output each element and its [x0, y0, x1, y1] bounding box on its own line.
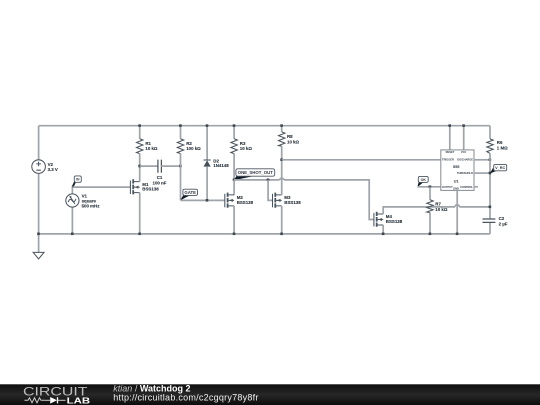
- svg-text:OUTPUT: OUTPUT: [442, 185, 453, 189]
- svg-text:10 kΩ: 10 kΩ: [240, 146, 253, 151]
- node threshold junction: [489, 172, 492, 175]
- wire hop over trigger branch: [280, 178, 284, 180]
- capacitor C2: [483, 216, 508, 226]
- resistor R6: [487, 139, 508, 219]
- wire R2 bottom to gate row: [180, 166, 182, 200]
- transistor M2 BSS138: [225, 193, 254, 208]
- wire M4 source: [382, 225, 384, 234]
- transistor M3 BSS138: [273, 193, 302, 208]
- flag IN: [72, 176, 81, 188]
- wire trigger row: [282, 159, 441, 161]
- wire M1 drain: [139, 166, 141, 182]
- svg-text:GATE: GATE: [184, 190, 196, 195]
- svg-text:10 kΩ: 10 kΩ: [435, 207, 448, 212]
- voltage source V1: [66, 187, 100, 234]
- svg-text:CONTROL: CONTROL: [460, 185, 473, 189]
- node R8 top: [280, 124, 283, 127]
- resistor R3: [231, 126, 252, 180]
- node gnd rail: [456, 233, 459, 236]
- node one-shot: [233, 179, 236, 182]
- svg-text:DISCHARGE: DISCHARGE: [457, 158, 473, 162]
- wire C2 bottom lead: [489, 222, 491, 234]
- svg-text:TRIGGER: TRIGGER: [442, 158, 454, 162]
- transistor M4 BSS138: [374, 212, 403, 227]
- wire V2 bottom lead: [38, 173, 40, 234]
- node one-shot to M3 gate: [267, 179, 270, 182]
- svg-text:RESET: RESET: [446, 150, 455, 154]
- flag OK: [417, 176, 428, 187]
- ground: [33, 234, 44, 259]
- capacitor C1: [140, 160, 181, 186]
- wire M1 source: [139, 193, 141, 234]
- node V1 bottom: [71, 233, 74, 236]
- node discharge: [489, 158, 492, 161]
- IC U1 555 timer: [441, 126, 474, 191]
- svg-text:100 kΩ: 100 kΩ: [186, 146, 201, 151]
- wire bottom rail: [39, 233, 490, 235]
- node C1 left: [138, 165, 141, 168]
- wire gnd pin: [456, 190, 458, 234]
- svg-text:GND: GND: [453, 187, 459, 191]
- svg-text:IN: IN: [76, 178, 80, 182]
- resistor R8: [279, 126, 300, 160]
- wire M4 drain to V_RC node: [459, 206, 490, 208]
- node vcc top: [462, 124, 465, 127]
- wire M3 drain: [281, 160, 283, 195]
- wire control stub: [474, 186, 478, 188]
- wire one-shot row: [234, 179, 280, 181]
- svg-text:1 MΩ: 1 MΩ: [497, 145, 508, 150]
- svg-text:R3: R3: [240, 141, 246, 146]
- node trigger: [280, 158, 283, 161]
- node M1 source rail: [138, 233, 141, 236]
- svg-text:10 kΩ: 10 kΩ: [287, 139, 300, 144]
- wire gate row M2: [181, 199, 225, 201]
- svg-text:10 kΩ: 10 kΩ: [145, 146, 158, 151]
- wire discharge: [474, 159, 490, 161]
- footer bar: [0, 383, 540, 405]
- node D2 gate row: [206, 199, 209, 202]
- svg-text:VCC: VCC: [461, 150, 467, 154]
- wire threshold: [474, 172, 490, 174]
- resistor R7: [427, 187, 448, 234]
- svg-text:BSS138: BSS138: [142, 187, 159, 192]
- svg-text:R7: R7: [435, 202, 441, 207]
- svg-text:V_RC: V_RC: [495, 166, 505, 170]
- node D2 top: [206, 124, 209, 127]
- transistor M1 BSS138: [130, 179, 159, 194]
- wire M3 gate drop: [268, 180, 272, 201]
- svg-text:THRESHOLD: THRESHOLD: [457, 171, 473, 175]
- flag GATE: [180, 189, 197, 200]
- node C1 right: [179, 165, 182, 168]
- node M3 source rail: [280, 233, 283, 236]
- node bottom-left junction: [37, 233, 40, 236]
- resistor R1: [137, 126, 158, 166]
- svg-text:2 µF: 2 µF: [499, 221, 508, 226]
- svg-text:3.3 V: 3.3 V: [48, 167, 58, 172]
- node M4 source rail: [382, 233, 385, 236]
- node R2 top: [179, 124, 182, 127]
- svg-text:ONE_SHOT_OUT: ONE_SHOT_OUT: [238, 170, 273, 175]
- wire IN row: [72, 186, 130, 188]
- svg-text:R6: R6: [497, 140, 503, 145]
- wire R6 top lead: [489, 126, 491, 139]
- diode D2 1N4148: [204, 126, 230, 201]
- node reset top: [448, 124, 451, 127]
- node output R7: [429, 185, 432, 188]
- wire M3 source: [281, 206, 283, 234]
- svg-text:BSS138: BSS138: [386, 219, 403, 224]
- svg-text:R1: R1: [145, 141, 151, 146]
- wire hop over gnd: [455, 205, 459, 207]
- svg-text:R2: R2: [186, 141, 192, 146]
- wire M4 drain: [383, 207, 455, 214]
- flag ONE_SHOT_OUT: [234, 169, 275, 181]
- svg-text:1N4148: 1N4148: [213, 163, 229, 168]
- node M2 source rail: [233, 233, 236, 236]
- svg-text:OK: OK: [421, 178, 427, 182]
- node vrc m4 junction: [489, 206, 492, 209]
- resistor R2: [177, 126, 201, 166]
- svg-text:500 mHz: 500 mHz: [82, 203, 101, 208]
- wire output row: [418, 186, 441, 188]
- node R7 rail: [429, 233, 432, 236]
- svg-text:555: 555: [453, 164, 460, 169]
- wire M2 source: [233, 206, 235, 234]
- node R1 top: [138, 124, 141, 127]
- svg-text:LAB: LAB: [67, 395, 91, 405]
- node R3 top: [233, 124, 236, 127]
- wire one-shot row to M4 gate: [284, 180, 374, 220]
- svg-text:BSS138: BSS138: [237, 200, 254, 205]
- flag V_RC: [490, 164, 507, 173]
- wire V2 top lead: [38, 126, 40, 160]
- voltage source V2: [32, 160, 58, 174]
- svg-text:R8: R8: [287, 134, 293, 139]
- svg-text:BSS138: BSS138: [284, 200, 301, 205]
- svg-text:100 nF: 100 nF: [153, 180, 167, 185]
- svg-text:http://circuitlab.com/c2cgqry7: http://circuitlab.com/c2cgqry78y8fr: [113, 392, 258, 402]
- svg-text:U1: U1: [454, 178, 460, 183]
- wire top rail: [39, 125, 490, 127]
- wire R3 to M2 drain: [233, 180, 235, 195]
